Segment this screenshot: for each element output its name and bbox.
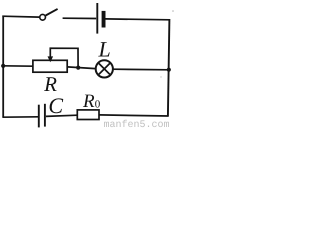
rheostat wiper arm and bypass wire bbox=[50, 48, 78, 67]
wire: rheostat to lamp bbox=[67, 67, 95, 69]
battery cell: long thin plate bbox=[96, 3, 98, 34]
svg-text:C: C bbox=[48, 93, 63, 118]
rheostat R body bbox=[33, 60, 67, 72]
svg-text:0: 0 bbox=[95, 99, 101, 111]
wire: left bus to rheostat bbox=[3, 65, 33, 67]
svg-text:R: R bbox=[82, 91, 95, 112]
capacitor C: right plate bbox=[44, 104, 46, 127]
resistor R0 body bbox=[77, 110, 99, 120]
capacitor C: left plate bbox=[38, 105, 40, 128]
scan speck mid-right bbox=[160, 76, 161, 77]
wire: bottom-left corner to capacitor bbox=[2, 116, 38, 118]
node: left bus / rheostat branch junction bbox=[1, 64, 5, 68]
wire: right vertical bus bbox=[168, 19, 170, 116]
svg-text:manfen5.com: manfen5.com bbox=[104, 119, 170, 128]
battery cell: short thick plate bbox=[102, 11, 106, 28]
node: wiper bypass / main wire junction bbox=[76, 66, 80, 70]
scan speck top-right bbox=[172, 10, 174, 12]
wire: lamp to right bus bbox=[113, 68, 169, 71]
lamp L cross filament bbox=[99, 63, 110, 74]
svg-text:L: L bbox=[98, 36, 111, 61]
wire: battery to top-right corner bbox=[106, 18, 170, 21]
switch S blade (open) bbox=[46, 9, 58, 16]
rheostat wiper arrowhead bbox=[48, 56, 54, 62]
wire: switch to battery bbox=[63, 17, 97, 19]
wire: R0 to bottom-right corner bbox=[99, 115, 169, 116]
wire: capacitor to resistor R0 bbox=[46, 115, 77, 116]
wire: left vertical bus bbox=[2, 16, 4, 118]
switch S pivot circle bbox=[40, 14, 46, 20]
lamp L envelope bbox=[96, 60, 113, 77]
node: lamp wire / right bus junction bbox=[167, 68, 171, 72]
wire: top-left corner to switch bbox=[2, 15, 39, 18]
